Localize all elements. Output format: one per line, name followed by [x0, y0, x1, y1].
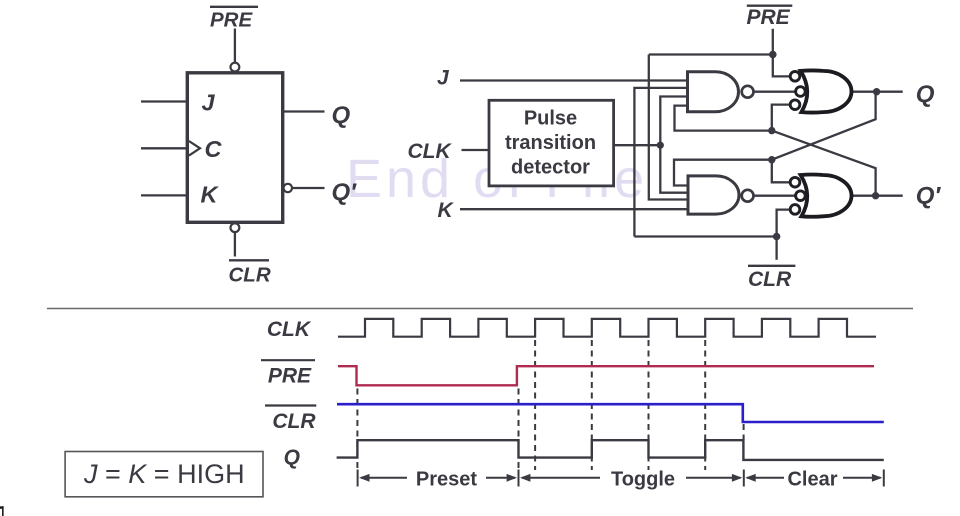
- svg-text:J: J: [437, 66, 450, 89]
- svg-text:PRE: PRE: [747, 6, 791, 29]
- svg-text:Pulse: Pulse: [524, 108, 577, 130]
- svg-text:CLK: CLK: [267, 318, 312, 341]
- svg-text:J: J: [202, 90, 216, 116]
- svg-text:J = K = HIGH: J = K = HIGH: [83, 459, 245, 489]
- svg-text:Q′: Q′: [916, 183, 942, 210]
- svg-text:transition: transition: [505, 132, 596, 154]
- svg-text:Toggle: Toggle: [611, 469, 675, 491]
- svg-text:Q: Q: [284, 446, 300, 469]
- svg-text:detector: detector: [511, 157, 590, 179]
- svg-text:CLR: CLR: [272, 410, 316, 433]
- svg-text:K: K: [201, 182, 220, 208]
- svg-text:Clear: Clear: [787, 469, 837, 491]
- svg-text:C: C: [205, 136, 223, 162]
- svg-text:CLK: CLK: [408, 140, 453, 163]
- svg-text:Preset: Preset: [416, 469, 477, 491]
- svg-text:PRE: PRE: [268, 365, 312, 388]
- svg-text:PRE: PRE: [210, 9, 253, 32]
- svg-text:K: K: [438, 199, 455, 222]
- svg-text:CLR: CLR: [748, 268, 792, 291]
- svg-text:CLR: CLR: [229, 264, 271, 287]
- svg-text:Q: Q: [916, 81, 935, 108]
- svg-text:Q: Q: [332, 102, 351, 129]
- svg-text:Q′: Q′: [332, 179, 358, 206]
